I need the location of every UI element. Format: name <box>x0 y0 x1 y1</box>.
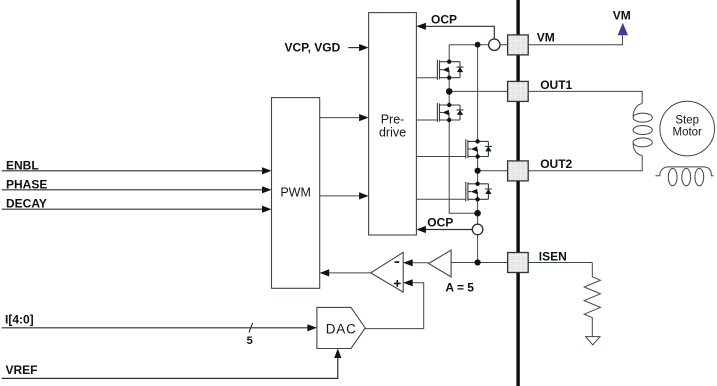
svg-text:VM: VM <box>537 31 555 45</box>
svg-text:VCP, VGD: VCP, VGD <box>285 41 341 55</box>
wire PWM to Pre-drive lower <box>320 195 361 197</box>
wire gate lead Q1 <box>416 77 437 79</box>
OCP current sensor bottom <box>472 224 483 235</box>
arrowhead OCP top <box>416 23 426 30</box>
wire OCP bottom to Pre-drive <box>418 229 473 231</box>
wire OCP top to Pre-drive <box>418 26 495 39</box>
transistor Q2 low-side OUT1 <box>437 103 463 122</box>
svg-text:VREF: VREF <box>6 363 38 377</box>
wire VREF to DAC <box>2 358 338 379</box>
arrowhead PHASE <box>262 186 272 193</box>
inductor motor winding B <box>655 167 713 186</box>
terminal OUT2 <box>508 161 529 181</box>
arrowhead comparator minus input <box>403 259 413 266</box>
OCP current sensor top <box>489 39 500 50</box>
Pre-drive block U2 <box>369 13 417 235</box>
gain amplifier A=5 <box>429 250 452 277</box>
DAC block <box>317 307 365 348</box>
node low-side common <box>474 210 481 217</box>
op-amp comparator U3 <box>371 252 404 292</box>
svg-text:Step: Step <box>675 114 699 126</box>
transistor Q4 low-side OUT2 <box>466 182 492 202</box>
terminal ISEN <box>508 253 529 273</box>
wire VCP, VGD to Pre-drive <box>348 47 360 49</box>
svg-text:DAC: DAC <box>326 322 357 337</box>
wire ENBL to PWM <box>2 170 264 172</box>
transistor Q3 high-side OUT2 <box>466 139 492 159</box>
arrowhead PWM to Pre-drive upper <box>359 114 369 121</box>
terminal VM <box>508 35 529 55</box>
node VM rail junction <box>475 42 481 48</box>
node OUT1 <box>446 88 453 95</box>
wire PHASE to PWM <box>2 189 264 191</box>
wire OUT1 node to motor winding <box>449 91 642 103</box>
power VM supply arrow <box>618 23 628 35</box>
transistor Q1 high-side OUT1 <box>437 60 463 80</box>
svg-text:drive: drive <box>379 125 406 139</box>
wire comparator output to PWM <box>329 272 371 274</box>
wire gate lead Q3 <box>416 156 465 158</box>
wire DAC output to comparator plus input <box>365 283 424 329</box>
wire ISEN line <box>451 262 592 264</box>
arrowhead I[4:0] <box>307 324 317 331</box>
svg-text:PHASE: PHASE <box>6 177 47 191</box>
device boundary line <box>516 0 519 386</box>
svg-text:ISEN: ISEN <box>539 249 567 263</box>
wire gate lead Q2 <box>416 119 437 121</box>
bus width slash <box>249 323 253 333</box>
wire VM rail <box>449 44 516 46</box>
wire DECAY to PWM <box>2 208 264 210</box>
svg-text:DECAY: DECAY <box>6 197 47 211</box>
svg-text:I[4:0]: I[4:0] <box>5 312 34 326</box>
wire OUT2 node to motor winding <box>478 156 643 171</box>
wire I[4:0] bus to DAC <box>2 327 309 329</box>
wire bridge A half-bridge node <box>448 78 450 105</box>
svg-text:OUT2: OUT2 <box>540 157 572 171</box>
svg-text:VM: VM <box>613 8 631 22</box>
wire bridge B drain <box>477 45 479 142</box>
arrowhead VREF <box>334 349 341 359</box>
arrowhead OCP bottom <box>416 226 426 233</box>
node ISEN <box>475 259 481 265</box>
svg-text:PWM: PWM <box>280 186 311 200</box>
svg-text:Pre-: Pre- <box>381 112 405 126</box>
wire gate lead Q4 <box>416 198 465 200</box>
wire common node to OCP sensor <box>477 213 479 224</box>
inductor motor winding A <box>633 104 652 156</box>
step motor M1 <box>660 101 715 156</box>
terminal OUT1 <box>508 81 529 101</box>
svg-text:A = 5: A = 5 <box>445 280 474 294</box>
ground <box>586 337 600 345</box>
arrowhead ENBL <box>262 167 272 174</box>
PWM block <box>272 98 320 289</box>
arrowhead comparator output <box>320 269 330 276</box>
wire bridge B half-bridge node <box>477 157 479 184</box>
wire bridge A drain <box>448 45 450 62</box>
node OUT2 <box>475 168 481 174</box>
wire VM terminal to VM supply <box>528 35 622 45</box>
wire bridge A low source to common node <box>449 120 477 213</box>
svg-text:OCP: OCP <box>427 216 453 230</box>
arrowhead PWM to Pre-drive lower <box>359 192 369 199</box>
arrowhead comparator plus input <box>403 279 413 286</box>
svg-text:OCP: OCP <box>431 12 457 26</box>
arrowhead VCP VGD <box>359 44 369 51</box>
svg-text:5: 5 <box>247 335 253 347</box>
resistor RSENSE <box>584 263 600 337</box>
svg-text:OUT1: OUT1 <box>540 78 572 92</box>
wire gain amp output to comparator minus input <box>412 262 429 264</box>
svg-text:Motor: Motor <box>672 126 702 138</box>
wire bridge B low source <box>477 199 479 213</box>
svg-text:ENBL: ENBL <box>6 158 39 172</box>
wire OCP sensor to ISEN node <box>477 235 479 263</box>
wire PWM to Pre-drive upper <box>320 117 361 119</box>
arrowhead DECAY <box>262 206 272 213</box>
